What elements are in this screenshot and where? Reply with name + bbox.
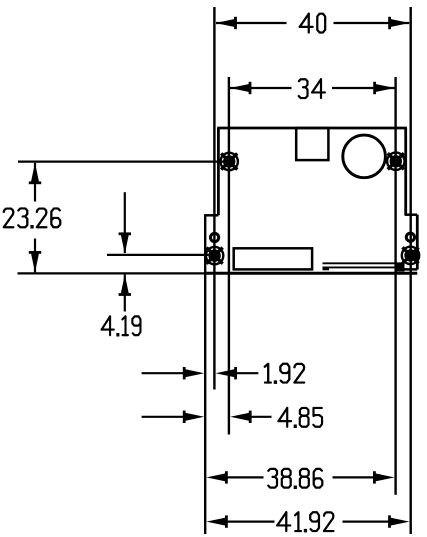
- part outline: left step ledge: [204, 214, 218, 217]
- extension line: bottom-left screw centerline (40 dim left): [213, 7, 215, 390]
- extension line: top screw horizontal centerline (23.26 top ref): [18, 161, 226, 163]
- extension line: top-left screw centerline (34 dim left): [228, 77, 230, 435]
- extension line: bottom screw horizontal centerline (4.19 top ref): [107, 254, 210, 256]
- part outline: top edge: [217, 127, 407, 130]
- part outline: right tab outer wall: [416, 215, 419, 270]
- small hole right: [406, 233, 414, 241]
- dimension 34 (top screw spacing): [230, 79, 395, 98]
- dimension 4.19 (bottom screw line to bottom edge): [102, 192, 141, 336]
- dimension 4.85 (tab edge to top-left screw line): [142, 408, 322, 428]
- screw hole bottom-left: [206, 247, 223, 264]
- dimension 38.86 (tab edge to right screw line): [206, 469, 394, 489]
- screw hole bottom-right: [402, 247, 419, 264]
- part outline: right tab bottom: [398, 268, 417, 271]
- part outline: upper right wall: [404, 128, 407, 215]
- extension line: left tab edge / part left outer wall: [204, 215, 206, 534]
- extension line: part bottom edge extended left: [18, 272, 206, 274]
- bottom-left connector rectangle: [234, 248, 312, 269]
- part outline: bottom edge: [204, 272, 417, 275]
- small hole left: [211, 233, 219, 241]
- screw hole top-left: [221, 153, 238, 170]
- part outline: right step ledge: [405, 213, 418, 216]
- extension line: bottom-right screw centerline (40 dim right): [410, 7, 412, 534]
- part outline: upper left wall: [217, 128, 220, 215]
- dimension 41.92 (overall, tab edge to bottom-right screw): [206, 512, 409, 532]
- top slot notch: [296, 128, 328, 160]
- dimension 1.92 (tab edge to bottom-left screw): [142, 364, 305, 384]
- extension line: top-right screw centerline (34 dim right): [394, 77, 396, 495]
- bottom-right pad strip: [323, 263, 405, 272]
- dimension 40 (top, bottom screw spacing): [216, 14, 410, 33]
- screw hole top-right: [387, 153, 404, 170]
- large circular hole: [343, 135, 386, 178]
- dimension 23.26 (left, top screw line to bottom edge): [4, 163, 61, 273]
